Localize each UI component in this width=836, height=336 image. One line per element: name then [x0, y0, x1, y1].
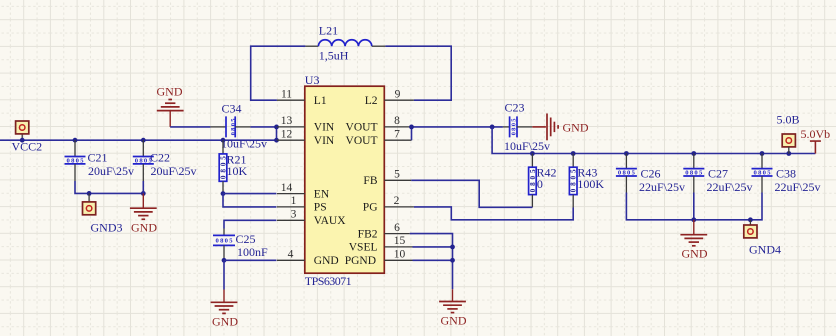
- svg-text:8: 8: [394, 115, 400, 127]
- capacitor C38: [752, 154, 821, 194]
- wire output caps gnd rail: [626, 193, 762, 223]
- capacitor C27: [683, 154, 752, 194]
- svg-text:15: 15: [394, 235, 406, 247]
- svg-text:5.0Vb: 5.0Vb: [801, 127, 831, 141]
- svg-text:100nF: 100nF: [237, 245, 268, 259]
- pin 3: [277, 209, 305, 221]
- resistor R43: [569, 154, 604, 208]
- svg-text:7: 7: [394, 129, 400, 141]
- svg-text:C23: C23: [505, 100, 525, 114]
- svg-text:22uF\25v: 22uF\25v: [707, 180, 753, 194]
- port GND3: [83, 193, 123, 234]
- pin 5: [384, 169, 411, 181]
- wire VCC2 main rail: [0, 139, 277, 141]
- svg-text:13: 13: [281, 115, 293, 127]
- pin 10: [384, 249, 412, 261]
- svg-text:GND4: GND4: [749, 242, 781, 256]
- svg-text:GND3: GND3: [91, 220, 123, 234]
- wire PG to R43: [414, 207, 573, 220]
- wire L2 loop right: [385, 46, 451, 100]
- capacitor C25: [213, 229, 268, 261]
- pin 2: [384, 195, 414, 207]
- pin 14: [277, 182, 305, 194]
- ground GND above C34: [157, 85, 184, 127]
- wire GND to C34: [170, 126, 210, 128]
- port 5.0B: [777, 113, 800, 154]
- svg-text:C21: C21: [88, 151, 108, 165]
- wire VOUT pins 7+8 tie: [409, 125, 503, 141]
- pin 11: [277, 89, 305, 101]
- resistor R42: [529, 154, 557, 208]
- pin 12: [277, 129, 305, 141]
- svg-text:C34: C34: [222, 102, 242, 116]
- svg-text:3: 3: [291, 209, 297, 221]
- wire C34 / VIN junction: [250, 125, 279, 143]
- pin 9: [384, 89, 414, 101]
- svg-text:GND: GND: [314, 255, 339, 267]
- svg-text:EN: EN: [314, 188, 330, 200]
- svg-text:10: 10: [394, 249, 406, 261]
- svg-text:L21: L21: [319, 24, 338, 38]
- wire FB2/VSEL/PGND to ground: [410, 234, 455, 290]
- svg-text:U3: U3: [305, 73, 320, 87]
- svg-text:VAUX: VAUX: [314, 215, 346, 227]
- svg-text:22uF\25v: 22uF\25v: [639, 180, 685, 194]
- pin 13: [277, 115, 305, 127]
- pin 6: [384, 222, 410, 234]
- svg-text:5: 5: [394, 169, 400, 181]
- svg-text:11: 11: [281, 89, 292, 101]
- wire L1 loop left: [251, 46, 306, 100]
- svg-text:PGND: PGND: [345, 255, 376, 267]
- svg-text:10uF\25v: 10uF\25v: [504, 139, 550, 153]
- svg-text:VIN: VIN: [314, 122, 335, 134]
- svg-text:GND: GND: [563, 120, 589, 134]
- svg-text:GND: GND: [157, 85, 183, 99]
- svg-text:2: 2: [394, 195, 400, 207]
- capacitor C23: [503, 100, 550, 153]
- svg-text:0: 0: [537, 177, 543, 191]
- svg-text:20uF\25v: 20uF\25v: [88, 164, 134, 178]
- svg-text:C38: C38: [776, 166, 796, 180]
- svg-text:VOUT: VOUT: [346, 122, 378, 134]
- pin 8: [384, 115, 411, 127]
- svg-text:VIN: VIN: [314, 135, 335, 147]
- wire C23 to GND (red): [532, 126, 546, 128]
- svg-text:PG: PG: [363, 202, 378, 214]
- svg-text:10K: 10K: [227, 164, 248, 178]
- ground GND under C22: [130, 193, 157, 234]
- power 5.0Vb: [801, 127, 831, 154]
- svg-text:C26: C26: [641, 166, 661, 180]
- capacitor C21: [65, 138, 135, 181]
- inductor L21: [305, 24, 385, 63]
- wire C21 to gnd rail: [75, 181, 146, 196]
- svg-text:GND: GND: [441, 314, 467, 328]
- svg-text:10uF\25v: 10uF\25v: [221, 136, 267, 150]
- capacitor C22: [133, 138, 197, 194]
- capacitor C26: [616, 154, 685, 194]
- svg-text:L2: L2: [365, 95, 378, 107]
- svg-text:TPS63071: TPS63071: [305, 274, 352, 288]
- svg-text:GND: GND: [682, 247, 708, 261]
- IC U3 TPS63071: [305, 73, 385, 288]
- wire FB to R42: [411, 180, 532, 207]
- pin 1: [277, 195, 305, 207]
- svg-text:C25: C25: [236, 232, 256, 246]
- svg-text:GND: GND: [131, 220, 157, 234]
- svg-text:14: 14: [281, 182, 293, 194]
- svg-text:FB: FB: [363, 175, 377, 187]
- svg-text:VOUT: VOUT: [346, 135, 378, 147]
- svg-text:5.0B: 5.0B: [777, 113, 800, 127]
- svg-text:VSEL: VSEL: [349, 242, 378, 254]
- pin 4: [277, 249, 305, 261]
- svg-text:VCC2: VCC2: [12, 140, 43, 154]
- wire VOUT rail: [492, 127, 815, 156]
- svg-text:C27: C27: [708, 166, 728, 180]
- svg-text:20uF\25v: 20uF\25v: [151, 164, 197, 178]
- capacitor C34: [210, 102, 267, 151]
- wire VAUX to C25: [224, 220, 276, 228]
- svg-text:12: 12: [281, 129, 293, 141]
- svg-text:6: 6: [394, 222, 400, 234]
- ground GND under C27: [680, 220, 707, 261]
- svg-text:C22: C22: [150, 151, 170, 165]
- port VCC2: [12, 121, 43, 154]
- resistor R21: [219, 138, 247, 194]
- svg-text:100K: 100K: [577, 177, 604, 191]
- port GND4: [744, 220, 781, 256]
- svg-text:FB2: FB2: [358, 228, 378, 240]
- svg-text:4: 4: [288, 249, 294, 261]
- svg-text:0805: 0805: [216, 238, 234, 245]
- wire PGND pin4 / C25 gnd: [222, 258, 277, 290]
- ground GND under U3: [439, 289, 467, 327]
- svg-text:22uF\25v: 22uF\25v: [775, 180, 821, 194]
- wire EN / PS: [221, 191, 277, 207]
- svg-text:L1: L1: [314, 95, 327, 107]
- svg-text:PS: PS: [314, 202, 327, 214]
- pin 7: [384, 129, 411, 141]
- pin 15: [384, 235, 412, 247]
- ground GND sideways (C23): [547, 114, 589, 141]
- svg-text:9: 9: [395, 89, 401, 101]
- svg-text:GND: GND: [212, 314, 238, 328]
- svg-text:1: 1: [291, 195, 297, 207]
- ground GND under C25: [211, 290, 239, 329]
- svg-text:1,5uH: 1,5uH: [319, 49, 349, 63]
